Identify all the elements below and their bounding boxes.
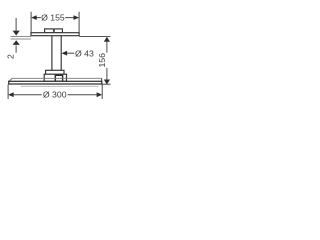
svg-text:Ø 155: Ø 155 bbox=[41, 12, 65, 22]
svg-text:156: 156 bbox=[97, 53, 107, 68]
svg-text:Ø 43: Ø 43 bbox=[75, 48, 94, 58]
svg-text:Ø 300: Ø 300 bbox=[43, 90, 67, 100]
svg-text:2: 2 bbox=[6, 54, 16, 59]
